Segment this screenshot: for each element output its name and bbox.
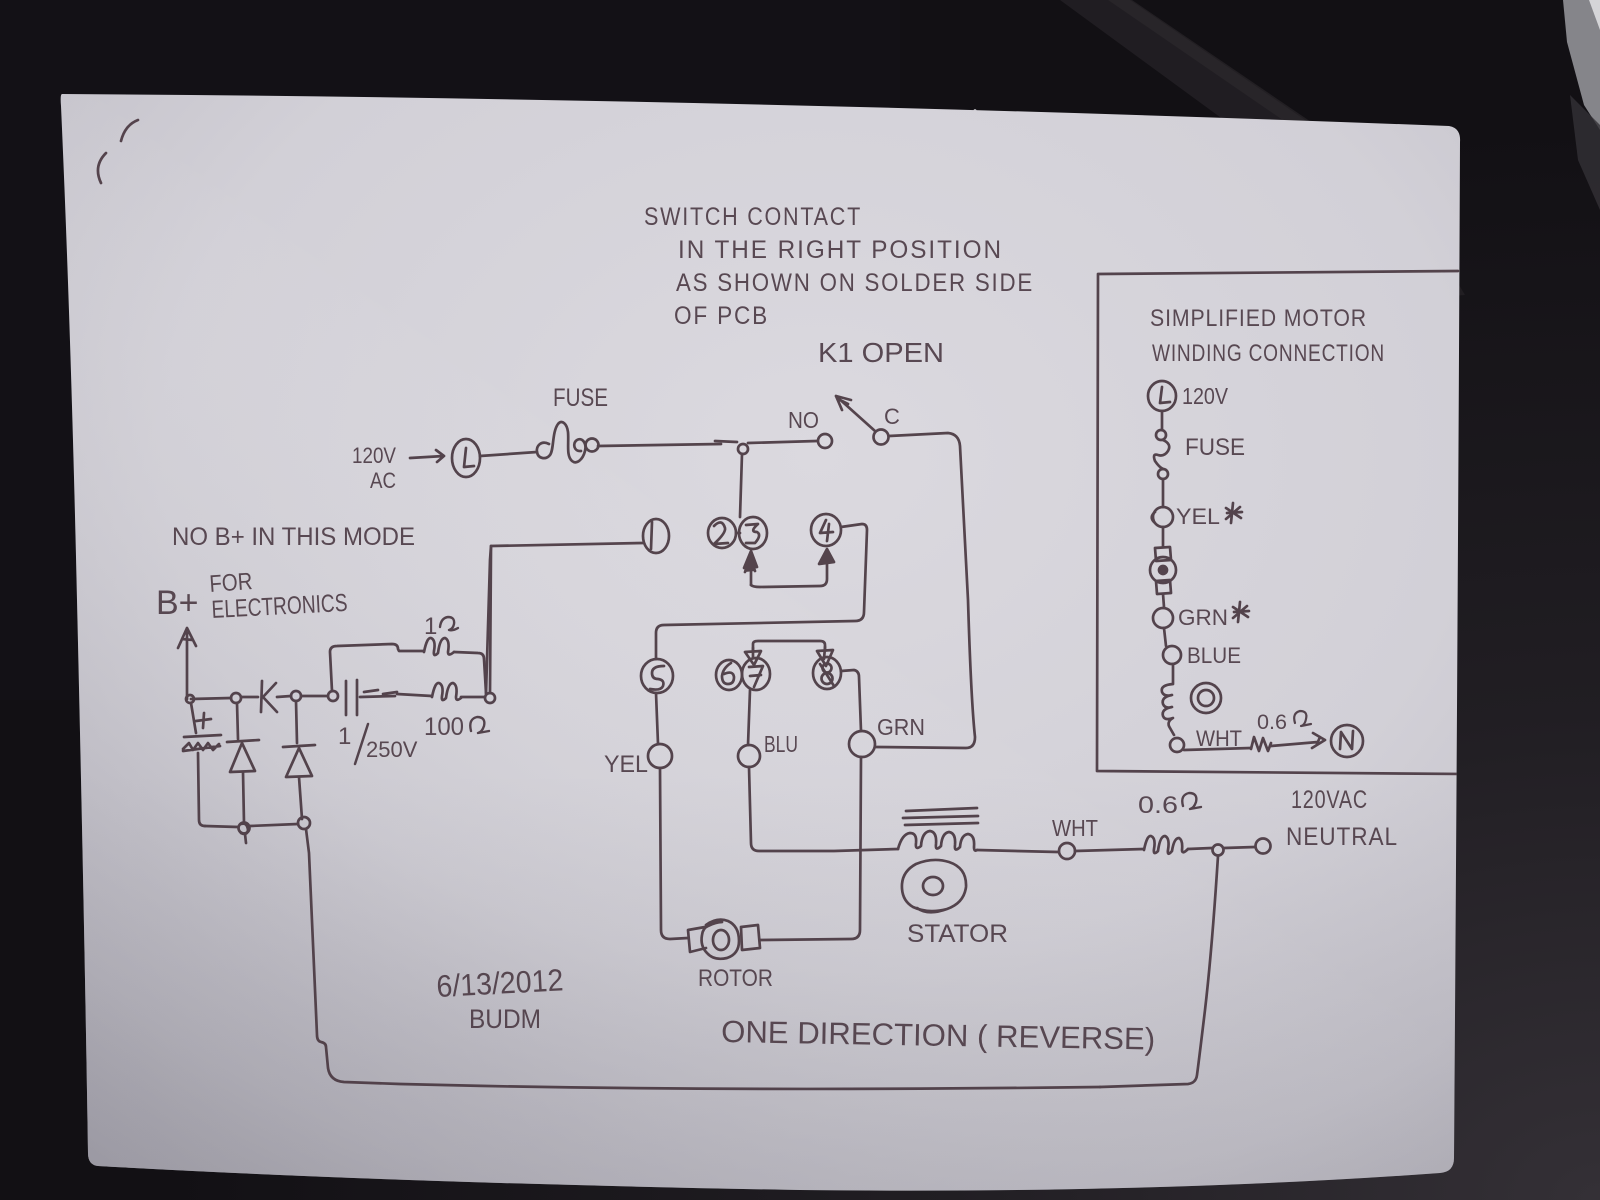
motor winding circle symbol (1191, 683, 1221, 713)
terminal WHT motor (1170, 738, 1184, 752)
resistor 100ohm on rail (432, 683, 461, 700)
wire 5 down to YEL (656, 693, 658, 744)
terminal 1 (643, 519, 669, 553)
pen mark top-left corner (98, 120, 138, 183)
rotor brush left (688, 927, 706, 952)
node bottom open (298, 817, 310, 829)
protector P1 body (1150, 557, 1176, 583)
fabric fold highlight top right (1060, 0, 1465, 298)
svg-text:GRN: GRN (1178, 605, 1228, 630)
svg-text:IN THE RIGHT POSITION: IN THE RIGHT POSITION (678, 236, 1003, 264)
plus sign (196, 713, 211, 728)
terminal GRN motor (1153, 608, 1173, 628)
resistor 0.6ohm motor (1251, 737, 1271, 751)
C3 bottom plate scribble (183, 743, 220, 751)
svg-text:WINDING CONNECTION: WINDING CONNECTION (1152, 340, 1385, 367)
terminal BLUE motor (1163, 646, 1181, 664)
diode D3 branch from node 2 (296, 701, 297, 743)
wire fuse to junction (598, 441, 737, 446)
terminal neutral open circle (1256, 839, 1271, 854)
rotor brush right (741, 925, 760, 950)
wire junction to terminal (1224, 847, 1255, 848)
svg-text:AC: AC (370, 468, 396, 493)
D2 cathode bar (227, 740, 259, 742)
svg-text:0.6: 0.6 (1257, 711, 1287, 734)
resistor 1ohm (424, 638, 454, 655)
wire junction down to terminal 3 (740, 454, 742, 517)
D3 lead down (299, 777, 302, 819)
bottom tie wire (205, 824, 298, 827)
wire (1164, 628, 1166, 646)
switch K1 arm with arrow (836, 396, 875, 431)
svg-text:100: 100 (424, 713, 464, 741)
svg-text:NO: NO (788, 407, 819, 433)
wire (1163, 594, 1164, 607)
wire BLU down and right to stator (749, 767, 898, 851)
wire terminal 1 to left vertical (491, 543, 643, 546)
label 120V AC (352, 443, 396, 493)
svg-text:FUSE: FUSE (553, 384, 608, 412)
motor box border (1097, 271, 1462, 774)
stator core symbol (902, 860, 966, 912)
arrow into L terminal (410, 450, 444, 462)
C3 bottom lead (198, 753, 205, 826)
wire node 4 up to terminal 1 feed (490, 548, 491, 693)
contact arrow under terminal 4 (819, 549, 834, 564)
svg-text:120VAC: 120VAC (1291, 786, 1368, 814)
svg-text:ROTOR: ROTOR (698, 965, 773, 992)
motor winding L2 loops (1162, 684, 1174, 735)
wire vertical to resistor node (486, 546, 491, 694)
terminal YEL (648, 744, 672, 768)
terminal 6 (716, 660, 742, 690)
svg-text:1: 1 (424, 613, 437, 640)
wire contact arrows U link (751, 556, 827, 587)
svg-text:YEL: YEL (1176, 504, 1220, 529)
wire stator to WHT (977, 850, 1058, 852)
svg-text:STATOR: STATOR (907, 920, 1008, 948)
wire (1172, 664, 1175, 683)
svg-text:BLU: BLU (764, 731, 798, 757)
svg-text:AS SHOWN ON SOLDER SIDE: AS SHOWN ON SOLDER SIDE (676, 269, 1034, 297)
star mark yel (1226, 503, 1242, 523)
label SIMPLIFIED MOTOR WINDING CONNECTION (1150, 305, 1385, 367)
fuse F1 (537, 422, 586, 462)
terminal L motor (circled) (1148, 381, 1176, 411)
svg-text:YEL: YEL (604, 751, 648, 778)
svg-text:BUDM: BUDM (469, 1004, 541, 1034)
B+ supply arrow (178, 628, 196, 699)
terminal BLU (738, 745, 760, 767)
resistor 0.6ohm line side (1144, 836, 1188, 854)
wire (1162, 479, 1165, 507)
rotor M1 body (702, 920, 739, 959)
svg-text:SWITCH CONTACT: SWITCH CONTACT (644, 203, 862, 231)
svg-text:OF PCB: OF PCB (674, 302, 769, 330)
wire with dashes after C1 (360, 690, 397, 697)
wire (277, 696, 291, 697)
note text: SWITCH CONTACT block (644, 203, 1034, 330)
svg-text:NEUTRAL: NEUTRAL (1286, 823, 1398, 851)
diode D2 branch from node 1 (237, 703, 238, 739)
wire 1ohm branch up from node 3 (330, 644, 424, 691)
svg-text:250V: 250V (366, 737, 418, 762)
terminal WHT (1059, 843, 1075, 859)
terminal L (circled) (452, 439, 480, 477)
label 1/250V (338, 723, 418, 762)
diode D1 on rail (261, 681, 277, 712)
node 2 on rail (291, 691, 301, 701)
stator core lines (903, 808, 978, 825)
D3 cathode bar (283, 745, 315, 747)
node bottom filled (239, 823, 250, 834)
svg-text:GRN: GRN (877, 714, 925, 740)
small white speck in dark area (973, 109, 978, 119)
wire to node 4 (461, 696, 484, 699)
contact arrow under terminal 3 (750, 560, 753, 585)
wire 8 right and down to GRN (841, 670, 861, 731)
wire (1162, 527, 1165, 547)
terminal 8 (813, 657, 841, 689)
junction node neutral (1213, 845, 1224, 856)
svg-text:B+: B+ (156, 584, 199, 622)
star mark grn (1233, 602, 1249, 622)
label 6/13/2012 (436, 962, 565, 1034)
light wall wedge at very top-right (1563, 0, 1600, 130)
D3 triangle (286, 748, 312, 777)
relay bar over terminals 7,8 (753, 641, 825, 652)
wire WHT motor right (1184, 748, 1251, 750)
svg-text:NO B+ IN THIS MODE: NO B+ IN THIS MODE (172, 523, 415, 551)
svg-text:K1 OPEN: K1 OPEN (818, 337, 944, 368)
wire neutral junction down to bottom loop (1100, 856, 1218, 1087)
bottom return wire (306, 829, 1100, 1089)
capacitor C1 plates (346, 680, 357, 715)
svg-text:WHT: WHT (1052, 815, 1098, 841)
svg-text:FUSE: FUSE (1185, 434, 1245, 461)
label B+ FOR ELECTRONICS (156, 568, 348, 624)
wire 1ohm branch right down to node 4 (454, 652, 486, 693)
paper sheet (61, 94, 1460, 1191)
svg-text:1: 1 (338, 723, 351, 750)
wire (397, 694, 432, 696)
svg-text:BLUE: BLUE (1187, 643, 1241, 668)
junction node with loop (738, 444, 748, 454)
terminal 5 (641, 659, 673, 693)
switch K1 NO terminal (818, 434, 832, 448)
label 120VAC NEUTRAL (1286, 786, 1398, 851)
capacitor C2 electrolytic lead (191, 703, 196, 733)
wire C to right corner and down to GRN row (876, 433, 975, 748)
wire rotor to GRN bottom (760, 757, 861, 940)
wire L to fuse (480, 452, 537, 456)
terminal 4 (811, 514, 841, 546)
node 1 on rail (231, 693, 241, 703)
node 4 on rail (485, 693, 495, 703)
wire (1161, 411, 1164, 430)
terminal N (circled) (1331, 725, 1363, 757)
terminal 2 (708, 518, 736, 548)
switch K1 C terminal (874, 430, 889, 445)
C3 top plate (184, 735, 221, 737)
wire with arrow to N (1271, 733, 1325, 748)
protector P1 upper lug (1155, 547, 1171, 561)
wire WHT to resistor (1075, 849, 1144, 851)
protector P1 lower lug (1156, 580, 1171, 594)
wire link 2-3 (736, 532, 740, 535)
wire 7 down to BLU (748, 690, 750, 745)
terminal GRN (849, 731, 875, 757)
svg-text:C: C (884, 404, 900, 429)
svg-text:6/13/2012: 6/13/2012 (436, 962, 565, 1004)
contact triangle over terminal 7 (745, 648, 761, 665)
node 3 on rail (328, 691, 338, 701)
fuse F2 motor (1156, 430, 1166, 440)
svg-text:0.6: 0.6 (1138, 792, 1178, 819)
D2 lead down (243, 772, 244, 823)
terminal YEL motor (1153, 507, 1173, 527)
wire (241, 696, 258, 699)
wire junction to NO (748, 441, 817, 443)
svg-text:120V: 120V (1182, 383, 1229, 409)
wire YEL down to rotor (660, 768, 688, 939)
svg-text:SIMPLIFIED MOTOR: SIMPLIFIED MOTOR (1150, 305, 1367, 332)
D2 triangle (230, 743, 255, 772)
wire (301, 695, 328, 698)
contact triangle over terminal 8 (817, 647, 833, 666)
stator winding L1 (898, 831, 977, 851)
wire main rail (191, 698, 231, 699)
terminal 7 (742, 658, 770, 690)
wire resistor to junction (1188, 848, 1212, 849)
svg-text:120V: 120V (352, 443, 396, 468)
terminal 3 (739, 517, 767, 549)
wire terminal 4 right and down to row 2 (656, 524, 867, 659)
node at B+ tap (186, 695, 194, 703)
